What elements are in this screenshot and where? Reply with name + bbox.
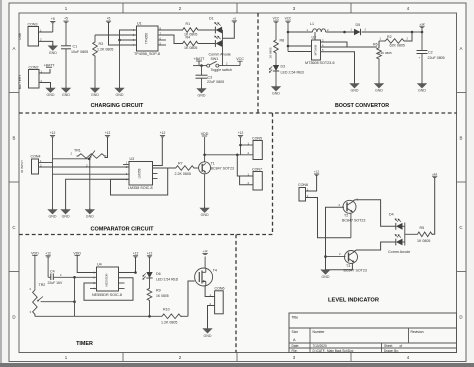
svg-text:1K 0805: 1K 0805 [417,239,430,243]
svg-text:LED 2.54 RED: LED 2.54 RED [281,71,305,75]
svg-text:D4: D4 [389,213,394,217]
svg-text:R5: R5 [420,226,425,230]
svg-text:GND: GND [49,51,57,55]
svg-text:D: D [459,315,462,320]
svg-text:BC847 SOT23: BC847 SOT23 [342,218,365,222]
svg-text:CON6: CON6 [215,287,225,291]
svg-text:+12: +12 [419,22,424,26]
svg-text:+: + [419,56,421,60]
svg-text:File:: File: [292,349,298,353]
svg-text:GND: GND [47,93,55,97]
svg-text:GND: GND [91,93,99,97]
svg-text:Comm Anode: Comm Anode [388,250,410,254]
svg-text:VDD: VDD [73,251,81,255]
svg-text:10uF 0805: 10uF 0805 [71,50,88,54]
svg-text:T4: T4 [213,269,217,273]
svg-text:+12: +12 [203,249,208,253]
svg-text:Comm Anode: Comm Anode [209,53,231,57]
svg-text:+5: +5 [51,17,55,21]
svg-text:2.2K 0805: 2.2K 0805 [175,172,191,176]
svg-text:CON2: CON2 [29,66,39,70]
svg-text:L1: L1 [310,22,314,26]
svg-text:+12: +12 [133,251,139,255]
svg-text:+12: +12 [45,251,51,255]
svg-text:C2: C2 [428,51,433,55]
svg-text:GND: GND [116,93,124,97]
svg-text:TP4056: TP4056 [145,33,149,44]
svg-text:+BATT: +BATT [43,63,55,67]
svg-text:D3: D3 [281,65,286,69]
svg-text:VCC: VCC [273,17,280,21]
svg-text:A: A [13,46,16,51]
svg-text:GND: GND [272,92,280,96]
svg-text:A: A [460,46,463,51]
svg-text:1K 0805: 1K 0805 [184,46,197,50]
svg-text:GND: GND [62,93,70,97]
svg-text:of: of [400,344,403,348]
svg-text:LM358 SOIC-8: LM358 SOIC-8 [128,186,153,190]
svg-text:TIMER: TIMER [76,341,93,347]
svg-text:LM358: LM358 [138,168,142,178]
svg-text:62K 0805: 62K 0805 [390,43,405,47]
svg-text:MT3608: MT3608 [314,44,318,55]
svg-text:C: C [459,225,462,230]
svg-text:22uF 0805: 22uF 0805 [428,56,445,60]
svg-text:Number: Number [313,330,326,334]
svg-text:VCC: VCC [236,57,244,61]
svg-text:R9: R9 [156,289,161,293]
svg-text:22uF 0805: 22uF 0805 [207,80,224,84]
svg-text:T3: T3 [346,264,350,268]
svg-text:B: B [13,136,16,141]
svg-text:GND: GND [204,334,212,338]
svg-text:GND: GND [62,215,70,219]
svg-text:GND: GND [86,215,94,219]
svg-text:+12: +12 [160,131,166,135]
svg-text:T2: T2 [344,214,348,218]
svg-text:+5: +5 [107,17,111,21]
svg-text:R8: R8 [280,39,285,43]
svg-text:Toggle switch: Toggle switch [211,68,233,72]
svg-text:1.2K 0805: 1.2K 0805 [161,320,177,324]
svg-text:GND: GND [201,213,209,217]
svg-text:C4: C4 [50,270,55,274]
svg-text:T1: T1 [211,162,215,166]
svg-text:CON3: CON3 [28,23,38,27]
svg-text:+12: +12 [314,170,319,174]
svg-text:CHARGING CIRCUIT: CHARGING CIRCUIT [91,103,144,109]
svg-text:+12: +12 [147,251,153,255]
svg-text:VDD: VDD [31,251,39,255]
svg-text:MT3608 SOT23-6: MT3608 SOT23-6 [305,61,335,65]
svg-text:R4: R4 [186,36,191,40]
svg-text:TR1: TR1 [74,149,81,153]
svg-text:SW1: SW1 [211,57,219,61]
svg-text:1K 0805: 1K 0805 [269,47,273,59]
svg-text:7/10/2020: 7/10/2020 [313,344,327,348]
svg-text:NE555DR: NE555DR [105,273,109,286]
svg-text:GND: GND [322,275,330,279]
svg-text:R10: R10 [163,307,170,311]
svg-text:U3: U3 [130,157,135,161]
svg-text:CON7: CON7 [252,167,262,171]
svg-text:CON8: CON8 [298,183,308,187]
svg-text:GND: GND [49,215,57,219]
svg-text:VCC: VCC [285,17,292,21]
svg-text:1.2K 0805: 1.2K 0805 [97,48,113,52]
svg-text:VDD: VDD [201,132,209,136]
svg-text:Sheet: Sheet [384,344,392,348]
svg-text:USB: USB [18,33,22,40]
svg-text:Size: Size [292,330,299,334]
svg-text:NE555DR SOIC-8: NE555DR SOIC-8 [92,293,122,297]
svg-text:U2: U2 [312,36,317,40]
svg-text:GND: GND [375,89,383,93]
svg-text:Date:: Date: [292,344,300,348]
svg-text:R6: R6 [373,43,378,47]
svg-text:D5: D5 [356,23,361,27]
svg-text:U4: U4 [97,263,102,267]
svg-text:LED 2.54 RED: LED 2.54 RED [156,278,179,282]
svg-text:LEVEL INDICATOR: LEVEL INDICATOR [328,297,379,303]
svg-text:+12: +12 [432,172,437,176]
svg-text:C1: C1 [73,45,78,49]
svg-text:BOOST CONVERTOR: BOOST CONVERTOR [335,103,389,109]
svg-text:B: B [460,136,463,141]
svg-text:+12: +12 [238,131,244,135]
svg-text:D:\CATF.. Main Baot.SchDoc: D:\CATF.. Main Baot.SchDoc [313,349,354,353]
svg-text:C3: C3 [208,75,213,79]
svg-text:CON5: CON5 [252,136,262,140]
svg-text:Revision: Revision [411,330,424,334]
svg-text:D: D [12,315,15,320]
svg-text:C: C [12,225,15,230]
svg-text:3.3K 0805: 3.3K 0805 [378,51,392,55]
svg-text:GND: GND [198,94,206,98]
svg-text:+12: +12 [50,131,56,135]
svg-text:+12: +12 [105,131,111,135]
svg-text:+5: +5 [233,17,237,21]
svg-text:TR2: TR2 [39,283,46,287]
svg-text:+BATT: +BATT [193,57,205,61]
svg-text:COMPARATOR CIRCUIT: COMPARATOR CIRCUIT [91,227,155,233]
svg-text:D1: D1 [209,17,214,21]
svg-text:Drawn By:: Drawn By: [384,349,399,353]
svg-text:GND: GND [418,89,426,93]
svg-text:+5: +5 [64,17,68,21]
svg-text:BATTERY: BATTERY [18,74,22,89]
svg-text:TP4056_SOP-8: TP4056_SOP-8 [134,52,160,56]
svg-text:R7: R7 [178,162,183,166]
svg-text:Title: Title [292,316,299,320]
svg-text:1K 0805: 1K 0805 [156,294,169,298]
svg-text:D6: D6 [156,272,161,276]
svg-text:R3: R3 [99,42,104,46]
svg-text:BC847 SOT23: BC847 SOT23 [211,166,234,170]
svg-text:CON4: CON4 [31,155,41,159]
svg-text:R2: R2 [387,35,392,39]
svg-text:GND: GND [351,89,359,93]
svg-text:IR INPUT: IR INPUT [20,160,24,173]
svg-text:U1: U1 [137,22,142,26]
svg-text:22uF 16V: 22uF 16V [48,281,63,285]
svg-text:R1: R1 [186,22,191,26]
